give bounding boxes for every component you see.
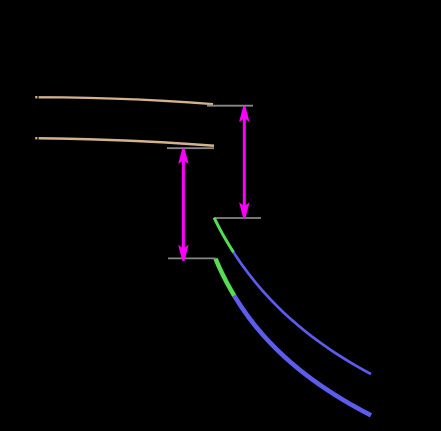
right magenta double arrow shaft bbox=[243, 118, 246, 207]
left magenta double arrow shaft bbox=[182, 160, 185, 249]
curve 1 blue segment bbox=[234, 252, 371, 374]
right arrow bottom head bbox=[239, 202, 249, 218]
left arrow bottom head bbox=[178, 245, 188, 261]
gray tick 4 (bottom of right arrow) bbox=[216, 217, 262, 219]
upper tan level line bbox=[39, 97, 213, 104]
gray tick 3 (bottom of left arrow) bbox=[168, 257, 216, 259]
right arrow top head bbox=[239, 106, 249, 122]
lower tan level start marker bbox=[35, 137, 37, 139]
gray tick 1 (top right, under upper tan line) bbox=[207, 105, 253, 107]
lower tan level line bbox=[39, 138, 214, 146]
upper tan level start marker bbox=[35, 96, 37, 98]
curve 2 blue segment bbox=[234, 296, 371, 416]
left arrow top head bbox=[178, 148, 188, 164]
gray tick 2 (under lower tan line) bbox=[167, 147, 214, 149]
curve 1 green segment bbox=[214, 218, 234, 253]
curve 2 green segment bbox=[216, 259, 235, 296]
